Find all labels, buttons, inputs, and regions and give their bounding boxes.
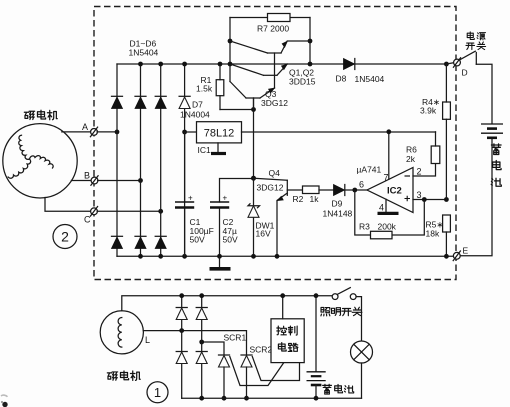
ground symbol on bottom bus [210, 256, 231, 269]
wire motor right to SCR2 column [143, 331, 246, 355]
ink blot bottom-left [1, 395, 8, 407]
svg-text:D: D [462, 68, 468, 78]
dashed enclosure of regulator unit (figure 2) [94, 7, 456, 280]
node branch on column f2 [199, 340, 204, 345]
node Q4 emitter bottom bus [275, 254, 280, 259]
lamp (circle with cross) [351, 341, 373, 363]
svg-text:1: 1 [154, 385, 161, 400]
node control box on top rail [280, 293, 285, 298]
wire phase A from motor to terminal [62, 131, 91, 133]
node SCR1 bottom bus [222, 396, 227, 401]
wire control box to top rail [282, 296, 284, 319]
R7 top wire [230, 17, 310, 19]
svg-text:µA741: µA741 [357, 165, 382, 175]
node battery bottom rail [314, 396, 319, 401]
ground under IC1 [211, 143, 226, 154]
svg-text:A: A [82, 122, 88, 132]
transistor Q4 [254, 178, 303, 256]
svg-text:IC1: IC1 [198, 145, 212, 155]
diode D3 [155, 96, 166, 108]
branch wire column f2 to SCR1 [202, 342, 224, 355]
thyristor SCR1 [219, 355, 284, 398]
label 磁电机 for M1 [107, 371, 140, 380]
bridge column f1 wire [181, 296, 183, 399]
zener diode DW1 [247, 178, 260, 256]
label 磁电机 (magneto) for M2 [24, 110, 57, 119]
collector rail node Q1 left [228, 39, 233, 44]
svg-text:3DG12: 3DG12 [261, 98, 288, 108]
node top rail column f1 [179, 293, 184, 298]
diode D2 [135, 96, 146, 108]
node pin7 on supply rail [386, 129, 391, 134]
battery (storage battery, right) [481, 124, 503, 138]
control circuit box 控制电路 [271, 319, 304, 363]
svg-text:1N5404: 1N5404 [355, 74, 385, 84]
node column f1 on motor wire [179, 328, 184, 333]
svg-text:50V: 50V [223, 235, 238, 245]
svg-text:R3: R3 [359, 222, 370, 232]
bridge column 2 wire [140, 64, 142, 256]
transistor Q2 [230, 64, 288, 76]
svg-text:C: C [84, 215, 91, 225]
terminal C connector [90, 207, 97, 217]
bridge column f2 wire [201, 296, 203, 399]
wire battery bottom to terminal E [460, 139, 492, 256]
R7 loop right vertical wire [309, 18, 311, 65]
wire C to bridge column 3 [97, 210, 161, 212]
wire battery branch top [315, 296, 317, 372]
node bus-column3 top [158, 62, 163, 67]
label 蓄电池 (bottom battery) [323, 384, 354, 394]
svg-text:50V: 50V [190, 235, 205, 245]
svg-text:3.9k: 3.9k [420, 106, 437, 116]
node B-column2 [138, 178, 143, 183]
svg-text:E: E [463, 246, 469, 256]
node DW1 bottom bus [251, 254, 256, 259]
svg-text:D8: D8 [336, 74, 347, 84]
feedback loop wire with R3 [355, 190, 425, 235]
node column f2 bottom [199, 396, 204, 401]
svg-text:R6: R6 [406, 145, 417, 155]
node battery branch on top rail [314, 293, 319, 298]
emitter rail node Q1 right [308, 39, 313, 44]
svg-text:D7: D7 [192, 100, 203, 110]
node C2 bottom bus [217, 254, 222, 259]
diode D8 [344, 59, 355, 70]
wire D7 node to 78L12 input [185, 131, 197, 133]
wire Q1/Q2 common base [274, 53, 276, 88]
svg-text:R7 2000: R7 2000 [257, 24, 289, 34]
svg-text:R2: R2 [293, 194, 304, 204]
circled number 1 [147, 382, 168, 403]
top DC bus wire [117, 63, 446, 65]
terminal A connector [90, 127, 97, 137]
lighting switch 照明开关 [332, 288, 356, 300]
wire R1 bottom to Q3 base [220, 109, 254, 111]
node bus to terminal D [444, 62, 449, 67]
node top rail column f2 [199, 293, 204, 298]
wire switch to lamp [356, 297, 361, 341]
diode lower f2 [196, 352, 207, 364]
capacitor C2 [210, 179, 254, 257]
svg-text:2k: 2k [406, 154, 416, 164]
diode D7 (open symbol) [179, 96, 190, 108]
op-amp IC2 uA741 triangle [367, 168, 413, 213]
diode D9 [334, 185, 368, 196]
svg-text:3DG12: 3DG12 [257, 183, 284, 193]
diode D5 [135, 236, 146, 248]
resistor R6 [431, 132, 440, 164]
node bus-column4 bottom [182, 254, 187, 259]
voltage regulator IC1 78L12 [197, 122, 242, 143]
pin 2 wire to R6 [413, 164, 436, 177]
transistor Q1 [230, 41, 310, 54]
wire battery bottom to rail [315, 385, 317, 398]
battery (bottom) [307, 372, 326, 385]
svg-text:18k: 18k [426, 229, 440, 239]
pin 3 wire [413, 199, 446, 201]
node bus-column2 bottom [138, 254, 143, 259]
label 照明开关 [321, 307, 362, 316]
magneto generator M2 (three-phase) [3, 124, 77, 198]
svg-text:78L12: 78L12 [204, 128, 235, 140]
label 电源开关 (power switch) [466, 32, 486, 50]
resistor R3 [371, 231, 393, 239]
svg-text:2: 2 [61, 229, 69, 245]
wire motor top to top rail [122, 296, 332, 311]
wire lamp bottom to rail [361, 363, 363, 398]
svg-text:+: + [188, 194, 193, 203]
node D7 output to regulator input [182, 130, 187, 135]
node pin3 feedback junction [422, 197, 427, 202]
node SCR2 bottom bus [244, 396, 249, 401]
thyristor SCR2 [241, 355, 300, 398]
wire A to bridge column 1 [97, 131, 117, 133]
node bus-column3 bottom [158, 254, 163, 259]
resistor R2 [303, 186, 334, 194]
node bus-column2 top [138, 62, 143, 67]
node bus right vertical [308, 62, 313, 67]
node R5 bottom on bus [444, 254, 449, 259]
svg-text:1N4004: 1N4004 [180, 110, 210, 120]
node pin3 to R4/R5 divider [444, 197, 449, 202]
bridge column 1 wire [116, 64, 118, 256]
column 4 wire (D7 / C1 branch) [184, 64, 186, 256]
wire node to terminal D [446, 63, 453, 64]
resistor R4 [443, 64, 451, 200]
wire phase B from motor to terminal [71, 180, 91, 182]
svg-text:Q4: Q4 [269, 168, 281, 178]
svg-text:200k: 200k [378, 222, 397, 232]
svg-text:3: 3 [417, 190, 422, 200]
node C-column3 [158, 209, 163, 214]
transistor Q3 [230, 82, 275, 110]
terminal D connector [453, 58, 460, 68]
diode D4 [112, 236, 123, 248]
svg-text:IC2: IC2 [387, 186, 402, 197]
svg-text:SCR2: SCR2 [250, 345, 273, 355]
svg-text:SCR1: SCR1 [224, 333, 247, 343]
bottom DC bus wire [117, 255, 453, 257]
diode upper f1 [176, 308, 187, 320]
wire phase C from motor bottom to terminal [45, 198, 91, 212]
diode upper f2 [196, 308, 207, 320]
svg-text:L: L [145, 335, 150, 345]
svg-text:16V: 16V [256, 229, 271, 239]
svg-text:1k: 1k [310, 194, 320, 204]
svg-text:+: + [223, 194, 228, 203]
pin 7 wire [388, 132, 390, 179]
svg-text:D9: D9 [332, 199, 343, 209]
node op-amp output [352, 188, 357, 193]
svg-text:2: 2 [417, 167, 422, 177]
bottom rail wire figure1 [182, 397, 362, 399]
diode D6 [155, 236, 166, 248]
circled number 2 [53, 225, 77, 249]
svg-text:1N5404: 1N5404 [129, 48, 159, 58]
svg-text:6: 6 [359, 180, 364, 190]
svg-text:4: 4 [379, 203, 384, 213]
wire switch to battery top [476, 64, 492, 123]
diode D1 [112, 96, 123, 108]
node Q4 base / DW1 top [251, 176, 256, 181]
magneto generator M1 [100, 311, 143, 354]
svg-text:1N4148: 1N4148 [323, 209, 353, 219]
wire 78L12 output rail to op-amp supply [242, 131, 436, 133]
label 蓄电池 (battery, vertical) [491, 144, 501, 186]
svg-text:B: B [84, 171, 90, 181]
R7 loop left vertical wire [229, 18, 231, 82]
node A-column1 [115, 130, 120, 135]
wire B to bridge column 2 [98, 180, 141, 182]
terminal E connector [453, 251, 460, 261]
node Q3 base junction [251, 107, 256, 112]
bridge column 3 wire [160, 64, 162, 256]
pin 4 wire and ground [378, 199, 399, 213]
terminal B connector [91, 176, 98, 186]
svg-text:1.5k: 1.5k [196, 84, 213, 94]
node R1 top on bus [218, 62, 223, 67]
resistor R5 [443, 215, 451, 256]
wire Q3 base column down to Q4 base node [253, 98, 255, 178]
resistor R1 [216, 64, 224, 110]
power switch lever [460, 51, 477, 64]
resistor R7 [268, 14, 291, 22]
capacitor C1 [175, 132, 194, 256]
diode lower f1 [176, 352, 187, 364]
svg-text:3DD15: 3DD15 [289, 77, 316, 87]
svg-text:7: 7 [384, 173, 389, 183]
node bus-column4 top [182, 62, 187, 67]
node bus left vertical [228, 62, 233, 67]
